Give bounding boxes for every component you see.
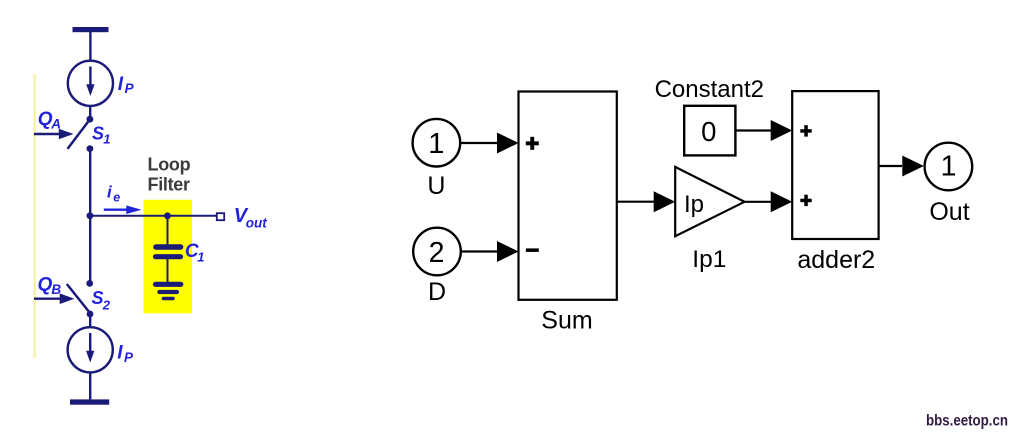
gain Ip1 triangle <box>675 167 744 236</box>
wire D to Sum <box>461 250 499 252</box>
node dot S2 top <box>86 280 93 287</box>
svg-text:out: out <box>246 215 267 230</box>
node dot S1 bottom <box>87 145 94 152</box>
svg-text:S: S <box>92 124 104 144</box>
negative supply rail <box>70 399 109 404</box>
svg-text:2: 2 <box>102 298 111 313</box>
block Constant2 <box>684 106 735 156</box>
svg-text:1: 1 <box>103 131 110 146</box>
svg-text:Ip: Ip <box>684 191 704 218</box>
svg-text:Filter: Filter <box>148 174 191 194</box>
loop filter highlight <box>144 200 193 313</box>
switch S2 blade <box>67 284 90 313</box>
svg-text:adder2: adder2 <box>797 246 875 274</box>
svg-text:Q: Q <box>38 275 53 296</box>
svg-text:U: U <box>427 172 445 200</box>
wire node to capacitor <box>167 216 169 245</box>
Vout terminal square <box>217 213 224 220</box>
wire node to switch S2 <box>89 216 91 284</box>
wire S1 to output node <box>89 149 91 216</box>
ground symbol loop filter <box>156 282 181 287</box>
wire Sum to gain <box>617 201 655 203</box>
svg-text:Out: Out <box>929 198 969 226</box>
inport U circle <box>413 119 461 167</box>
wire current source to switch S1 <box>89 106 91 119</box>
wire current source to negative rail <box>89 372 91 399</box>
svg-text:I: I <box>117 342 123 363</box>
wire gain to adder2 <box>745 201 772 203</box>
svg-text:e: e <box>113 191 120 205</box>
current source IP (bottom) <box>68 327 113 372</box>
svg-text:Sum: Sum <box>541 306 592 334</box>
inport D circle <box>413 228 461 276</box>
svg-text:P: P <box>125 81 135 96</box>
value label IP (bottom) <box>117 342 134 365</box>
QA control wire <box>34 133 60 135</box>
junction dot ie node <box>87 212 94 219</box>
svg-text:1: 1 <box>428 128 444 160</box>
wire node to Vout terminal <box>90 215 216 217</box>
label QB <box>38 275 62 297</box>
node dot S2 bottom <box>87 311 94 318</box>
label QA <box>38 109 61 131</box>
label Vout <box>234 205 267 231</box>
capacitor C1 plates <box>156 244 181 250</box>
node dot loop filter <box>164 212 171 219</box>
label Loop Filter <box>148 154 191 194</box>
svg-text:Constant2: Constant2 <box>655 76 764 103</box>
wire rail to current source <box>89 32 91 61</box>
svg-text:I: I <box>118 74 124 95</box>
QB control wire <box>34 298 61 300</box>
wire U to Sum <box>460 142 499 144</box>
label S1 <box>92 124 111 147</box>
wire Constant2 to adder2 <box>735 129 771 131</box>
label ie <box>107 182 120 204</box>
svg-text:Loop: Loop <box>148 154 191 174</box>
svg-text:Ip1: Ip1 <box>692 246 726 273</box>
node dot S1 top <box>87 116 94 123</box>
block Sum <box>519 92 617 300</box>
svg-text:2: 2 <box>429 237 445 269</box>
yellow guide line <box>34 74 36 358</box>
svg-text:1: 1 <box>197 250 204 265</box>
value label IP (top) <box>118 74 135 96</box>
label S2 <box>92 288 111 313</box>
positive supply rail <box>73 27 109 32</box>
svg-text:1: 1 <box>941 151 957 183</box>
block adder2 <box>792 91 878 239</box>
label C1 <box>185 241 205 265</box>
wire S2 to current source <box>89 314 91 328</box>
svg-text:D: D <box>428 278 446 306</box>
svg-text:0: 0 <box>701 116 716 147</box>
outport Out circle <box>925 143 973 191</box>
wire adder2 to Out <box>879 165 902 167</box>
wire capacitor to ground <box>167 258 169 282</box>
svg-text:P: P <box>124 350 134 365</box>
svg-text:bbs.eetop.cn: bbs.eetop.cn <box>926 413 1008 430</box>
ie current arrow <box>104 208 128 210</box>
switch S1 blade <box>68 120 90 149</box>
current source IP (top) <box>68 61 113 106</box>
